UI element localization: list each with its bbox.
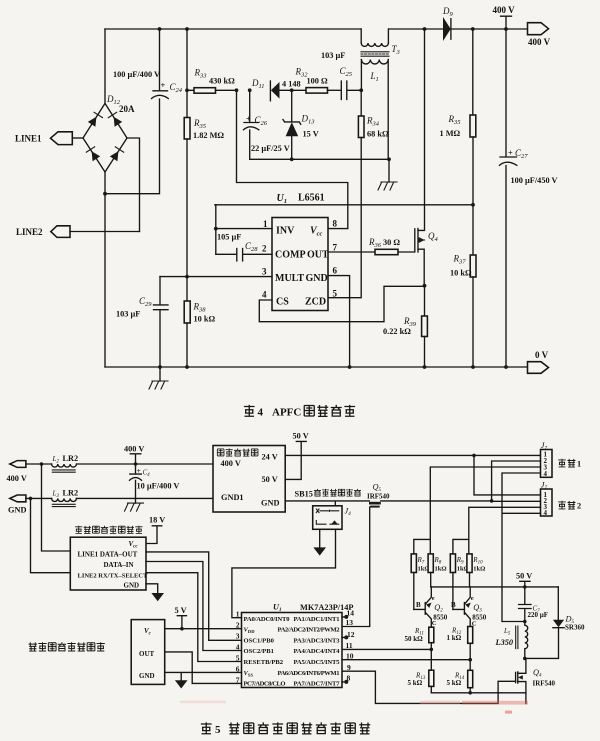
svg-text:2: 2 [577,502,581,511]
capacitor C26 electrolytic 22uF/25V [244,90,258,159]
svg-text:PA2/ADC2/INT2/PWM2: PA2/ADC2/INT2/PWM2 [278,627,341,634]
box: J4 wave detector [313,506,342,530]
svg-text:e: e [471,595,474,602]
wire: GND pin6 down to 0V rail [328,276,350,367]
svg-text:DATA–IN: DATA–IN [104,561,134,569]
svg-text:2: 2 [236,620,240,629]
svg-text:8550: 8550 [433,613,448,621]
wire: RX/TX-SELECT to MCU pin5 [146,573,242,662]
svg-text:30 Ω: 30 Ω [383,238,400,247]
svg-text:GND1: GND1 [221,493,244,502]
svg-text:Q2: Q2 [434,603,443,614]
svg-text:PA7/ADC7/INT7: PA7/ADC7/INT7 [294,681,341,688]
svg-text:ZCD: ZCD [305,297,326,308]
svg-text:COMP: COMP [275,250,306,261]
wire: Q5 node to J7-2 pin2 [492,500,541,502]
wire: LINE2 drop to controller [31,498,71,572]
svg-text:C24: C24 [170,82,183,94]
wire: Vcc net (tap on R33 node up over IC to pin 8) [237,90,348,228]
resistor R35b 1M output divider top [472,29,474,115]
node: pin11 junction [430,648,434,652]
connector J7 lamp group 2 [541,489,553,516]
svg-text:2: 2 [262,244,267,254]
svg-text:10 µF/400 V: 10 µF/400 V [137,482,180,491]
wire: OUT to MCU pin7 [165,652,242,684]
svg-text:PA5/ADC5/INT5: PA5/ADC5/INT5 [294,659,341,666]
resistor R7 1k [411,554,416,573]
svg-text:400 V: 400 V [528,37,551,47]
diode D11 4148 [269,81,271,101]
wire: LINE2 to bridge right drop [70,231,140,233]
svg-text:MULT: MULT [275,273,304,284]
svg-text:C29: C29 [139,296,152,308]
svg-text:+: + [246,115,251,124]
wire: R9 down to Q3 base [452,573,454,610]
svg-text:+: + [161,81,166,90]
svg-text:4: 4 [544,470,548,478]
svg-text:C25: C25 [340,66,353,78]
wire: Vc to MCU pin2 [165,628,242,630]
resistor R37 10k output divider bottom [470,255,476,277]
wire: DATA-OUT to MCU pin3 [146,552,242,640]
svg-text:Q3: Q3 [473,603,482,614]
capacitor C25 [341,81,361,100]
svg-text:L350: L350 [495,638,514,647]
resistor R8 1k [428,554,433,573]
svg-text:8: 8 [333,219,338,229]
svg-text:OUT: OUT [307,250,329,261]
svg-text:10: 10 [346,652,354,661]
wire: J7-1 pin3 down to R7/R8 [414,467,541,554]
svg-text:Q4: Q4 [533,668,542,679]
svg-text:430 kΩ: 430 kΩ [209,77,235,86]
inductor L3 LR2 [52,498,77,501]
svg-text:22 µF/25 V: 22 µF/25 V [251,144,290,153]
wire: top 400V rail (left section, bridge top to T3 primary) [105,28,361,30]
resistor R13 5k [429,670,434,686]
pin numbers right + NC dots [346,609,355,683]
svg-text:100 Ω: 100 Ω [307,77,329,86]
svg-text:GND: GND [139,672,155,680]
wire: top rail D9 cathode to 400V output arrow [452,28,528,30]
svg-text:L2: L2 [52,455,60,465]
svg-text:5: 5 [236,653,240,662]
resistor R38 10k [186,277,188,301]
svg-text:4: 4 [236,642,240,651]
wire: LINE1 to bridge left vertex [72,137,83,139]
svg-text:LINE1 DATA–OUT: LINE1 DATA–OUT [78,550,138,558]
svg-text:50 kΩ: 50 kΩ [405,635,424,643]
wire: pin1 stub and INV node [216,205,272,255]
svg-text:J7: J7 [541,441,548,452]
svg-text:L3: L3 [52,489,60,499]
svg-text:1 MΩ: 1 MΩ [440,129,461,138]
svg-text:J7: J7 [541,481,548,492]
svg-text:L6561: L6561 [298,193,325,204]
svg-text:RESETB/PB2: RESETB/PB2 [244,659,284,666]
svg-text:Q4: Q4 [428,231,439,243]
inductor L5 L350 [516,626,518,649]
svg-text:INV: INV [276,226,295,237]
svg-text:400 V: 400 V [124,445,144,454]
capacitor C24 electrolytic 100uF/400V [105,29,168,194]
svg-text:+: + [508,149,513,158]
svg-text:R36: R36 [368,237,382,249]
svg-text:Q5: Q5 [373,483,382,494]
svg-text:7: 7 [333,243,338,253]
wire: DATA-IN to MCU pin4 [146,562,242,651]
svg-text:C27: C27 [515,148,528,160]
node: pin10 junction [468,658,472,662]
svg-text:68 kΩ: 68 kΩ [367,130,389,139]
box: electronic transformer [213,446,285,513]
svg-text:GND: GND [261,499,279,508]
wire: Q4 drain node / INV divider [423,284,427,288]
svg-text:5 kΩ: 5 kΩ [408,679,423,687]
resistor R11 50k [429,627,434,643]
svg-text:MK7A23P/14P: MK7A23P/14P [300,603,353,612]
wire: 24V rail to lamp connector J7-1 pin1 [285,454,540,456]
svg-text:GND: GND [8,506,26,515]
ground wire: C26/D13 to T3 return [250,158,389,160]
wire + terminal: 50V output [285,441,306,479]
ground symbol under T3 [388,159,390,182]
caption figure 5 [201,722,370,736]
svg-text:LINE2 RX/TX–SELECT: LINE2 RX/TX–SELECT [78,572,149,579]
node: L350 bottom [523,657,527,661]
svg-text:D11: D11 [251,78,265,90]
wire: CS loop pin4 to source sense node [259,286,424,321]
terminal: 400V top symbol fig5 [130,454,141,464]
wire: 24V link down to J7-2 pin1 [474,455,541,495]
svg-text:4: 4 [258,407,264,419]
svg-text:20A: 20A [119,104,135,114]
svg-text:IRF540: IRF540 [533,680,556,688]
caption figure 4 [244,405,355,419]
svg-text:SB15: SB15 [295,489,313,498]
svg-text:50 V: 50 V [516,572,532,581]
svg-text:R9: R9 [456,556,464,566]
svg-text:13: 13 [346,618,354,627]
svg-text:R33: R33 [194,68,208,80]
svg-text:50 V: 50 V [293,432,309,441]
ground symbol under C4 [125,503,144,511]
resistor R33 430k [187,29,194,118]
node: junction dots on top rail [158,27,162,31]
transistor Q2 8550 [414,587,432,627]
capacitor C29 103 [154,277,169,367]
connector: LINE1 arrow [51,132,73,145]
box: infrared human sensor [131,620,165,685]
svg-text:PA6/ADC6/INT6/PWM1: PA6/ADC6/INT6/PWM1 [278,670,340,677]
svg-text:APFC: APFC [272,407,301,419]
wire: INV feedback line (pin1 over to output divider) [215,204,473,206]
svg-text:1: 1 [236,610,240,619]
wire: Q5 gate to MCU pin13 [342,626,370,628]
svg-text:PA0/ADC0/INT0: PA0/ADC0/INT0 [244,616,291,623]
wire: J7-1 pin4 / J7-2 pin4 down to L350 [502,473,541,622]
resistor R14 5k [468,670,473,687]
terminal: 400V top symbol [501,16,512,29]
svg-text:PC7/ADC8/CLO: PC7/ADC8/CLO [244,681,286,688]
resistor R36 30R gate resistor [328,251,375,253]
svg-text:B: B [416,601,421,609]
connector: 400V input arrow [10,461,26,468]
wire: J7-2 pin3 down to R9/R10 [453,507,541,554]
svg-text:e: e [432,595,435,602]
resistor R9 1k [450,554,455,573]
svg-text:3: 3 [262,267,267,277]
wire: R7 down to Q2 base [413,573,415,610]
svg-text:R38: R38 [193,302,207,314]
wire: 0V bottom rail [105,366,528,368]
svg-text:D9: D9 [442,6,454,18]
svg-text:18 V: 18 V [149,516,165,525]
wire: MCU pin9 to Q4 gate [342,671,516,703]
svg-text:100 µF/400 V: 100 µF/400 V [113,70,160,79]
svg-text:100 µF/450 V: 100 µF/450 V [511,176,558,185]
resistor R10 1k [467,554,472,573]
svg-text:1: 1 [263,219,268,229]
svg-text:L5: L5 [503,627,511,637]
svg-text:24 V: 24 V [262,453,278,462]
svg-text:3: 3 [236,631,240,640]
svg-text:105 µF: 105 µF [217,233,241,242]
svg-text:11: 11 [346,641,353,650]
svg-text:C28: C28 [245,241,258,253]
wire: bridge bottom vertex down to bottom rail [104,172,106,367]
wire: J7-1 pin2 to Q5 node [492,461,541,501]
wire: bridge top vertex to top rail [104,29,106,103]
svg-text:4: 4 [544,509,548,517]
svg-text:PA1/ADC1/INT1: PA1/ADC1/INT1 [294,616,340,623]
connector J7 lamp group 1 [541,450,553,478]
wire: Q5 to lamp return [381,500,492,502]
svg-text:J4: J4 [345,507,352,518]
svg-text:1: 1 [577,460,581,469]
svg-text:R34: R34 [366,116,380,128]
svg-text:R35: R35 [193,118,207,130]
resistor R34 68k [359,88,363,92]
svg-text:1kΩ: 1kΩ [435,566,447,573]
red marker smudge [420,701,460,704]
svg-text:PA4/ADC4/INT4: PA4/ADC4/INT4 [294,648,341,655]
svg-text:1.82 MΩ: 1.82 MΩ [193,131,224,140]
IC U1 L6561 [272,218,328,311]
MOSFET Q5 IRF540 (small, horizontal) [369,502,381,626]
connector: LINE2 arrow [51,226,70,238]
svg-text:10 kΩ: 10 kΩ [450,269,472,278]
svg-text:1kΩ: 1kΩ [473,566,485,573]
svg-text:4: 4 [262,290,267,300]
branch: D5 SR360 [557,587,559,620]
transistor Q3 8550 [453,587,471,627]
svg-text:U1: U1 [273,603,282,614]
bridge rectifier D12 [83,103,127,172]
wire: GND feed to transformer [26,497,213,499]
ground symbol at bottom left [159,367,161,381]
svg-text:103 µF: 103 µF [116,310,140,319]
svg-text:103 µF: 103 µF [321,51,345,60]
svg-text:R35: R35 [448,114,462,126]
svg-text:220 µF: 220 µF [528,611,549,619]
connector: GND input arrow [10,495,26,502]
connector: 400V output arrow [528,23,549,35]
svg-text:15 V: 15 V [303,130,319,139]
svg-text:OSC2/PB1: OSC2/PB1 [244,648,274,655]
svg-text:5: 5 [333,289,338,299]
resistor R32 100R [306,88,328,94]
wire: J4 right pin to MCU pin1 [232,529,336,617]
svg-text:4 148: 4 148 [282,80,301,89]
svg-text:8550: 8550 [472,613,487,621]
svg-text:OSC1/PB0: OSC1/PB0 [244,637,275,644]
svg-text:LR2: LR2 [63,454,79,463]
svg-text:5 V: 5 V [175,606,187,615]
svg-text:R7: R7 [417,556,425,566]
svg-text:400 V: 400 V [493,5,516,15]
capacitor C28 (COMP compensation) [216,249,272,262]
svg-text:GND: GND [124,582,140,590]
svg-text:R10: R10 [472,556,483,566]
wire: controller GND to ground [146,584,158,593]
MOSFET Q4 IRF540 [516,658,526,703]
diode D9 (boost diode, series in top rail) [443,17,451,41]
inductor L2 LR2 [52,464,77,467]
svg-text:R8: R8 [434,556,442,566]
wire: GND to MCU pin6 with ground [165,672,242,680]
wire: MULT pin3 line [160,276,272,278]
svg-text:5: 5 [215,724,221,736]
svg-text:LINE2: LINE2 [16,227,43,237]
wire: LINE1 drop to controller [42,464,71,551]
capacitor C7 220uF [519,587,531,622]
wire: GND1 to J4 and Q5 [285,501,369,506]
box: power line carrier controller [70,537,146,590]
zener D13 15V [283,90,301,124]
resistor R12 1k [468,627,473,644]
wire: top rail between T3 and D9 [389,28,443,30]
svg-text:R37: R37 [453,254,467,266]
svg-text:U1: U1 [277,193,287,205]
wire: emitter 50V rail [431,573,559,587]
svg-text:1 kΩ: 1 kΩ [447,634,462,642]
wire: J4 left pin to ground [319,529,321,547]
svg-text:6: 6 [333,266,338,276]
svg-text:GND: GND [306,273,328,284]
resistor R35 1.82M (vertical) [184,118,190,140]
svg-text:400 V: 400 V [221,459,241,468]
svg-text:LR2: LR2 [63,488,79,497]
svg-text:5 kΩ: 5 kΩ [447,679,462,687]
pin numbers left [236,610,240,685]
capacitor C27 electrolytic 100uF/450V [500,29,517,367]
box: MCU MK7A23P/14P [242,613,343,688]
wire: bottom tie R13/R14 to Q4 source [431,692,526,694]
svg-text:T3: T3 [392,44,401,56]
wire: 400V feed to transformer [26,463,213,465]
svg-text:C4: C4 [143,469,151,479]
svg-text:LINE1: LINE1 [15,134,42,144]
svg-text:50 V: 50 V [262,475,278,484]
svg-text:CS: CS [276,297,289,308]
svg-text:IRF540: IRF540 [367,493,390,501]
svg-text:OUT: OUT [139,650,155,658]
svg-text:C26: C26 [255,115,268,127]
wire: D11 to R32 [280,89,307,91]
svg-text:+: + [137,467,141,475]
svg-text:0 V: 0 V [535,350,549,360]
svg-text:10 kΩ: 10 kΩ [194,315,216,324]
resistor R39 0.22k source sense [424,286,426,316]
connector: 0V arrow [528,362,549,374]
svg-text:SR360: SR360 [565,624,585,632]
MOSFET Q4 [415,29,425,286]
svg-text:PA3/ADC3/INT3: PA3/ADC3/INT3 [294,637,341,644]
svg-text:9: 9 [347,663,351,672]
wire: MCU pin11 to Q2 collector divider [342,648,431,650]
capacitor C4 10uF/400V [130,464,142,503]
node: junction C24 return [103,192,107,196]
svg-text:0.22 kΩ: 0.22 kΩ [383,327,411,336]
svg-text:L1: L1 [370,71,379,83]
transformer T3 with boost winding L1 [361,29,389,159]
svg-text:400 V: 400 V [7,474,27,483]
wire: MCU pin10 to Q3 collector divider [342,659,470,661]
svg-text:D13: D13 [301,114,316,126]
wire: bridge right vertex to LINE2 drop [127,138,140,232]
